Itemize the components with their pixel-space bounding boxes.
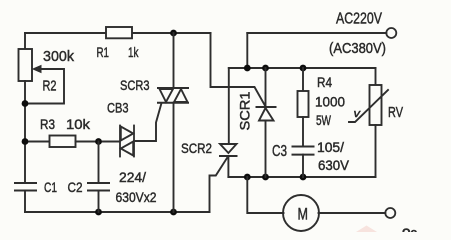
svg-text:5W: 5W xyxy=(316,112,332,128)
triac SCR3 right triangle xyxy=(174,89,188,102)
thyristor SCR2 cathode bar xyxy=(220,155,237,157)
varistor RV body xyxy=(370,85,382,125)
node top SCR3 rail xyxy=(170,30,177,37)
svg-text:SCR2: SCR2 xyxy=(181,140,212,156)
wire bottom horizontal xyxy=(25,211,210,213)
svg-text:R4: R4 xyxy=(317,74,332,90)
wire SCR1 rail lower xyxy=(265,121,267,178)
watermark xyxy=(356,226,418,240)
wire C2 rail upper xyxy=(98,142,100,184)
wire SCR2 anode rail xyxy=(228,68,230,144)
svg-text:224/: 224/ xyxy=(119,169,146,185)
wire diac to SCR3 gate xyxy=(134,103,162,141)
wire R3 to diac xyxy=(76,141,120,143)
svg-text:1k: 1k xyxy=(128,44,139,60)
svg-text:SCR3: SCR3 xyxy=(120,77,150,93)
wire SCR2 gate xyxy=(210,158,228,212)
thyristor SCR2 triangle xyxy=(220,144,237,153)
diac CB3 right bar xyxy=(133,126,135,157)
node C2 top junction xyxy=(95,138,102,145)
svg-text:AC220V: AC220V xyxy=(336,11,382,28)
wire R4 to C3 xyxy=(302,117,304,147)
wire C2 rail lower xyxy=(98,191,100,213)
terminal AC line top xyxy=(386,28,396,38)
node motor drop xyxy=(244,174,251,181)
svg-text:SCR1: SCR1 xyxy=(237,91,253,130)
svg-text:R3: R3 xyxy=(40,116,55,132)
wire left rail below R2 xyxy=(24,81,26,183)
node C3 bottom xyxy=(300,174,307,181)
diac CB3 left bar xyxy=(119,126,121,157)
svg-text:R1: R1 xyxy=(97,44,110,60)
svg-text:1000: 1000 xyxy=(315,94,345,110)
wire C1 bottom to bottom wire xyxy=(24,191,26,213)
potentiometer R2 wiper arrow xyxy=(33,66,41,73)
node SCR1 on bus xyxy=(262,65,269,72)
wire SCR3 rail lower xyxy=(173,103,175,212)
wire top horizontal from left rail to SCR1-gate corner xyxy=(25,32,211,34)
triac SCR3 bottom bar xyxy=(158,102,188,104)
resistor R4 body xyxy=(298,91,309,117)
wire motor to terminal xyxy=(319,212,386,214)
svg-text:C2: C2 xyxy=(68,179,83,195)
svg-text:(AC380V): (AC380V) xyxy=(329,40,386,57)
svg-text:105/: 105/ xyxy=(317,139,344,155)
triac SCR3 left triangle xyxy=(160,89,174,102)
capacitor C3 xyxy=(293,146,314,148)
thyristor SCR1 triangle xyxy=(259,108,274,121)
resistor R3 body xyxy=(50,136,76,148)
wire mid bus y177 xyxy=(228,176,375,178)
capacitor C2 xyxy=(88,182,109,184)
terminal AC line bottom xyxy=(385,208,395,218)
resistor R2 body xyxy=(19,49,33,81)
node R4 on bus xyxy=(300,65,307,72)
wire R3 row left xyxy=(25,141,50,143)
diac CB3 triangle upper xyxy=(121,127,133,141)
svg-text:C1: C1 xyxy=(44,179,57,195)
node left rail R3 row xyxy=(22,138,29,145)
svg-text:CB3: CB3 xyxy=(107,100,129,116)
wire left rail upper xyxy=(24,33,26,49)
svg-text:RV: RV xyxy=(388,104,403,121)
node bottom C2 xyxy=(95,209,102,216)
varistor RV diagonal xyxy=(349,90,388,122)
svg-text:C3: C3 xyxy=(272,143,287,160)
svg-text:630Vx2: 630Vx2 xyxy=(116,189,157,205)
wire R4 rail upper xyxy=(302,68,304,91)
svg-text:630V: 630V xyxy=(318,157,350,173)
svg-text:Oo: Oo xyxy=(402,227,418,232)
wire SCR2 cathode lower xyxy=(227,156,229,177)
wire RV top drop xyxy=(375,68,377,85)
svg-text:R2: R2 xyxy=(43,78,57,95)
wire R2 wiper loop xyxy=(25,69,64,104)
wire SCR3 rail upper xyxy=(173,33,175,88)
svg-text:300k: 300k xyxy=(43,48,74,65)
wire RV bottom xyxy=(375,125,377,177)
node bottom SCR3 rail xyxy=(170,209,177,216)
wire AC220V feed xyxy=(247,32,386,34)
svg-text:M: M xyxy=(298,205,309,224)
resistor R1 body xyxy=(106,27,132,38)
wire SCR1 gate drop xyxy=(211,33,266,107)
wire motor branch vertical xyxy=(247,177,283,213)
node SCR1 anode xyxy=(262,174,269,181)
svg-text:10k: 10k xyxy=(66,116,91,132)
thyristor SCR1 cathode bar xyxy=(257,106,276,108)
diac CB3 triangle lower xyxy=(121,142,133,156)
wire AC drop to bus xyxy=(246,33,248,68)
wire C3 bottom xyxy=(302,155,304,177)
triac SCR3 top bar xyxy=(158,87,188,89)
node R2 wiper junction xyxy=(22,100,29,107)
node AC drop on bus xyxy=(244,65,251,72)
motor M circle xyxy=(283,195,319,231)
capacitor C1 xyxy=(15,182,36,184)
thyristor SCR1 rail upper xyxy=(265,68,267,107)
wire upper bus y68 xyxy=(229,67,376,69)
